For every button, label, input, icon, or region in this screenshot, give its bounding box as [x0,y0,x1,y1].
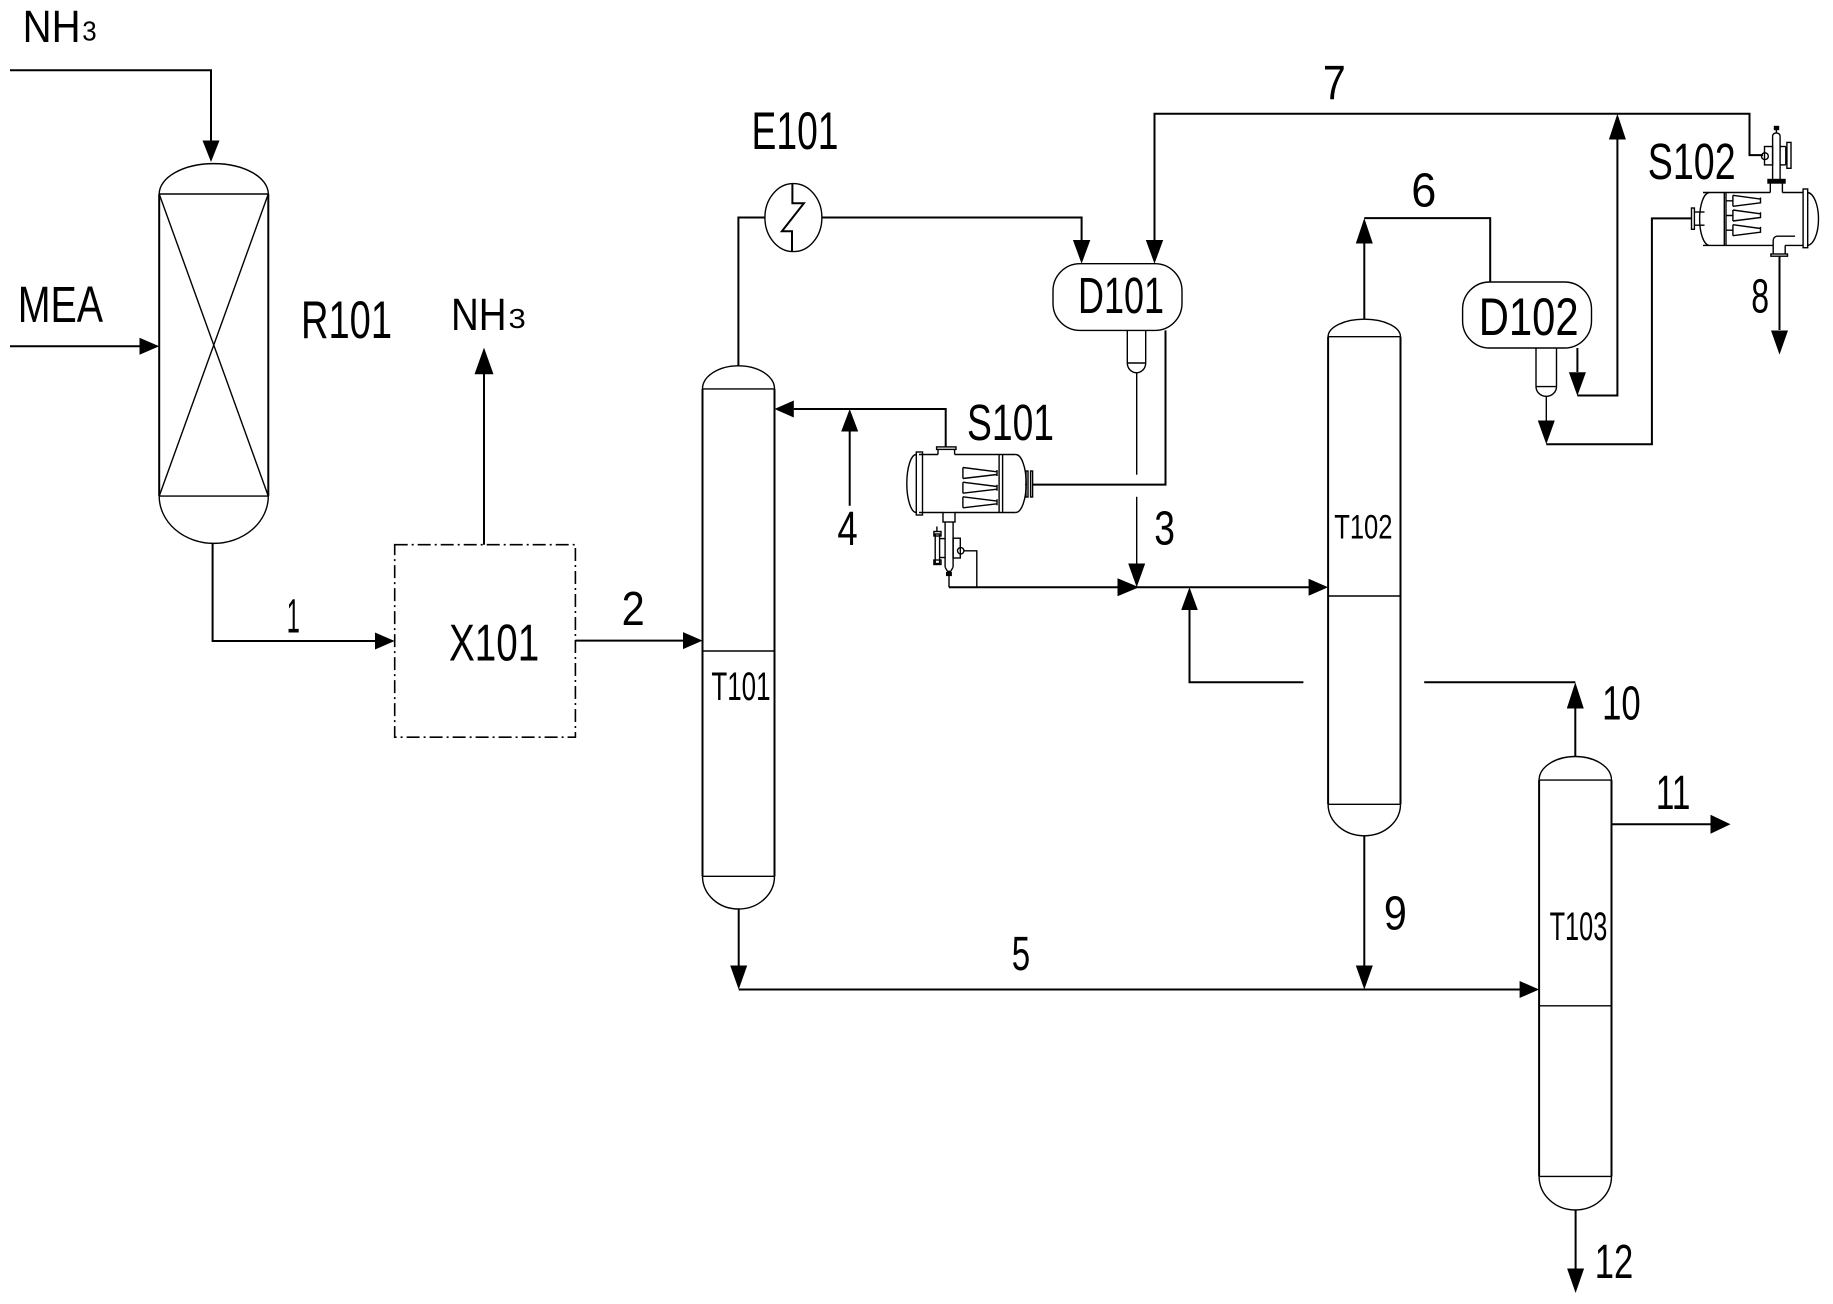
svg-text:D101: D101 [1078,267,1164,324]
svg-text:3: 3 [1154,503,1175,556]
wire D102 boot to S102 suction [1545,396,1547,421]
svg-text:MEA: MEA [18,276,103,333]
arrow up into stream 7 line [1609,114,1626,140]
arrow stream 5 into T103 [1520,981,1540,998]
svg-text:6: 6 [1411,165,1436,218]
svg-text:S101: S101 [967,394,1054,451]
arrow stream 4 up [841,409,858,432]
arrow recycle up into junction line [1181,587,1198,610]
wire D102 right outlet up to stream 7 [1576,348,1578,372]
svg-text:5: 5 [1012,928,1030,981]
svg-text:10: 10 [1602,677,1641,730]
wire stream 10 : T103 top recycle [1574,708,1576,757]
arrow junction right at boot line [1118,578,1140,596]
arrow stream 9 down [1356,966,1373,990]
svg-text:9: 9 [1384,888,1407,941]
arrow stream 3 down into junction [1128,564,1145,588]
D102 bottom boot [1536,348,1557,396]
svg-text:T103: T103 [1550,905,1608,949]
wire stream 6 : T102 top to D102 [1363,243,1365,319]
svg-text:NH: NH [451,289,507,340]
arrow stream 7 into D101 top [1146,240,1163,264]
pump S101 [907,447,1033,587]
svg-text:11: 11 [1656,767,1691,820]
reactor R101 [159,164,268,544]
wire stream 12 : T103 bottom [1575,1210,1577,1269]
arrow stream 1 into X101 [375,633,395,650]
arrow stream 2 into T101 [683,632,703,649]
svg-text:T102: T102 [1334,509,1392,547]
wire T101 sidedraw to S101 suction [794,409,946,447]
wire main junction line to T102 [949,586,1310,588]
wire stream 1 : R101 bottom to X101 [213,543,376,641]
arrow stream 6 up [1356,218,1373,243]
arrow MEA into R101 wall [140,338,160,355]
svg-text:E101: E101 [752,102,839,161]
wire stream 5 : T101 bottom to T103 [738,909,740,966]
wire NH3 feed into R101 [10,70,211,142]
wire stream 9 : T102 bottom down [1363,836,1365,966]
svg-text:S102: S102 [1648,133,1736,190]
svg-text:X101: X101 [449,614,539,672]
arrow D102 right outlet down [1569,372,1586,396]
arrow into T101 right wall [775,401,794,418]
svg-text:R101: R101 [301,291,392,350]
svg-text:3: 3 [82,15,96,46]
svg-text:T101: T101 [711,665,770,709]
column T101 [703,366,775,909]
wire NH3 vent from X101 top [483,373,485,545]
wire recycle from line 10 up [1190,610,1304,682]
svg-text:2: 2 [622,583,645,636]
wire stream 8 : S102 discharge down [1779,256,1781,330]
arrow D102 boot down [1538,421,1555,445]
heat exchanger E101 [765,184,822,252]
wire stream 11 : T103 side draw [1612,823,1712,825]
arrow stream 10 up [1567,682,1584,708]
svg-text:3: 3 [509,303,526,334]
D101 bottom boot [1127,330,1145,372]
pump S102 [1692,127,1819,257]
arrow stream 12 down [1567,1269,1584,1294]
svg-text:NH: NH [23,1,81,52]
drum D102 [1463,282,1592,348]
svg-text:1: 1 [287,590,300,643]
wire E101 to D101 [822,218,1082,242]
wire stream 4 [849,431,851,506]
svg-text:4: 4 [837,503,857,556]
wire stream 3 : D101 boot down (with crossing gap) [1136,373,1138,475]
wire stream 7 : overhead to D101 and to S102 [1155,114,1764,241]
label NH3 feed (top-left) [23,1,97,52]
svg-text:7: 7 [1323,57,1346,110]
wire MEA feed into R101 [10,345,141,347]
drum D101 [1053,264,1182,331]
arrow NH3 vent up [475,348,494,375]
arrow stream 11 right [1711,815,1731,834]
arrow into T102 left wall [1309,579,1329,596]
label NH3 vent [451,289,526,340]
wire T101 top to E101 [738,218,765,366]
arrow NH3 into R101 top [203,141,220,163]
arrow stream 8 down [1771,331,1788,355]
wire D101 bottom-right to S101 discharge [1033,330,1166,484]
column T103 [1539,757,1611,1211]
mixer X101 (dash-dot box) [395,545,576,738]
svg-text:8: 8 [1751,270,1769,323]
column T102 [1328,319,1400,836]
svg-text:12: 12 [1595,1236,1634,1289]
arrow E101 line into D101 top [1073,240,1090,264]
arrow T101 bottoms down [730,966,747,990]
wire stream 2 : X101 to T101 [575,640,684,642]
svg-text:D102: D102 [1479,288,1579,347]
